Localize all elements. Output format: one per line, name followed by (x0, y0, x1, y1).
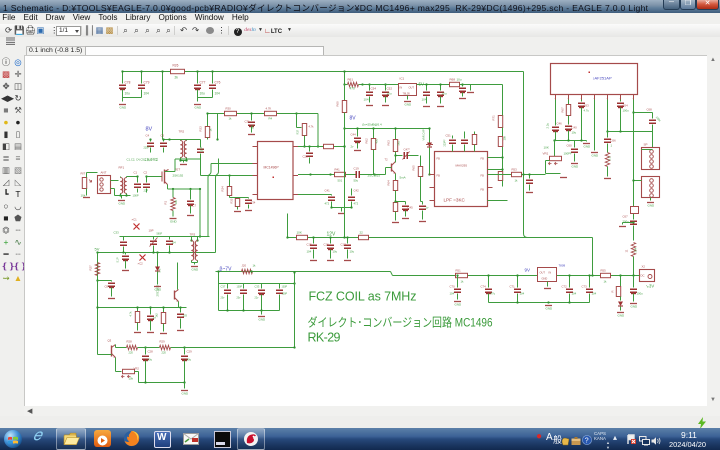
svg-text:R26: R26 (173, 64, 179, 68)
resistor R55 (601, 273, 611, 277)
transistor Q3 2SC1815 (111, 346, 113, 357)
svg-text:220: 220 (129, 351, 134, 355)
svg-text:10P: 10P (149, 229, 154, 233)
svg-text:472: 472 (325, 202, 330, 206)
ground bus under C41 C42 (332, 207, 352, 209)
svg-text:SP: SP (644, 143, 648, 147)
capacitor C53 above LPF (464, 132, 466, 139)
svg-text:C74: C74 (481, 285, 487, 289)
svg-text:C60: C60 (567, 144, 573, 148)
svg-text:R41: R41 (335, 168, 341, 172)
svg-text:100: 100 (174, 199, 178, 204)
capacitor C71 (517, 276, 519, 288)
svg-text:GND: GND (182, 392, 190, 396)
resistor R26 (171, 69, 185, 73)
svg-text:104: 104 (422, 98, 427, 102)
capacitor C74 (488, 276, 490, 288)
op-amp IC3 audio amplifier AF251AP (551, 64, 638, 95)
capacitor C70 (457, 276, 459, 288)
zener diode VD1 (156, 251, 158, 253)
wire L to R37 (296, 114, 298, 128)
svg-text:R63: R63 (387, 140, 391, 146)
svg-text:10k: 10k (503, 135, 507, 140)
svg-text:C17: C17 (341, 243, 347, 247)
svg-text:C72: C72 (562, 285, 568, 289)
resistor R22 (359, 235, 369, 239)
wire AF out (185, 347, 295, 349)
wire base (386, 167, 392, 169)
svg-text:104: 104 (215, 92, 221, 96)
svg-text:C45: C45 (408, 206, 414, 210)
svg-text:220: 220 (162, 351, 167, 355)
svg-text:GND: GND (405, 103, 413, 107)
svg-text:0.1P: 0.1P (117, 257, 120, 262)
svg-text:GND: GND (155, 288, 163, 292)
svg-text:C7: C7 (193, 204, 197, 208)
svg-text:R33: R33 (199, 126, 203, 132)
antenna connector X1 (98, 176, 111, 194)
capacitor C75 under R55 (620, 276, 622, 287)
svg-text:20v: 20v (221, 297, 226, 300)
varactor diode D2 1N60 (429, 129, 431, 143)
svg-text:104: 104 (364, 98, 369, 102)
svg-text:MAX295: MAX295 (456, 164, 468, 168)
wire LPF feedback taps (488, 157, 503, 159)
speaker connector SP1 (642, 148, 660, 170)
no-connect mark VC1 (134, 224, 140, 230)
svg-text:GND: GND (584, 145, 592, 149)
svg-text:C70: C70 (450, 285, 456, 289)
svg-text:ダイレクト･コンバージョン回路 MC1496: ダイレクト･コンバージョン回路 MC1496 (308, 315, 493, 330)
svg-text:GND: GND (192, 268, 200, 272)
wire mixer drop x97 (97, 253, 99, 355)
voltage regulator IC4 78L09 (538, 268, 557, 282)
svg-text:10u: 10u (457, 78, 462, 82)
resistor R61 470 (345, 84, 348, 86)
resistor R38 (324, 144, 334, 148)
resistor R70 above LPF (474, 132, 476, 135)
resistor R28 220 (127, 345, 138, 349)
svg-text:4.7K: 4.7K (266, 107, 272, 111)
svg-text:IC1: IC1 (400, 77, 405, 81)
wire emitter bus (139, 382, 185, 384)
svg-text:10u: 10u (350, 250, 355, 254)
svg-text:4,7k: 4,7k (309, 125, 315, 129)
capacitor C69 (633, 276, 635, 288)
svg-text:104: 104 (307, 250, 312, 254)
svg-text:J20: J20 (242, 264, 247, 268)
wire into MC1496 pin y175 (201, 175, 253, 177)
svg-text:22P: 22P (144, 189, 149, 193)
wire LO bias row (345, 128, 430, 130)
svg-text:C31: C31 (245, 120, 251, 124)
svg-text:C51: C51 (446, 134, 452, 138)
svg-text:C5: C5 (161, 134, 165, 138)
capacitor C51 (426, 85, 428, 91)
svg-text:βv=25dB@5.4: βv=25dB@5.4 (363, 123, 383, 127)
wire corner drop to pin row (317, 114, 319, 147)
ground under SP2 (650, 198, 652, 201)
svg-text:100P: 100P (237, 286, 243, 289)
svg-text:GND: GND (592, 154, 600, 158)
wire bottom supply rail (216, 271, 391, 273)
potentiometer VR2 10k (115, 361, 117, 372)
capacitor C46 (555, 100, 557, 126)
wire 12V rail (288, 237, 593, 239)
svg-text:↘3V: ↘3V (646, 284, 655, 289)
svg-text:R53: R53 (512, 168, 518, 172)
trimmer capacitor TC1 (153, 237, 155, 240)
svg-text:C64: C64 (623, 104, 629, 108)
svg-text:OUT: OUT (409, 86, 415, 90)
svg-text:10k: 10k (129, 377, 134, 381)
svg-text:4.7k: 4.7k (129, 311, 133, 317)
svg-text:47u: 47u (491, 292, 496, 296)
svg-text:50u: 50u (354, 179, 359, 183)
svg-text:LPF =3KC: LPF =3KC (444, 198, 466, 203)
svg-text:GND: GND (119, 202, 127, 206)
capacitor C42 (351, 189, 353, 196)
svg-text:10u: 10u (125, 92, 131, 96)
svg-text:GND: GND (170, 220, 178, 224)
resistor R33 (207, 114, 209, 127)
capacitor C77 (197, 72, 199, 84)
wire top bias row (208, 113, 297, 115)
transformer TR3 (191, 237, 193, 241)
wire output row (608, 131, 653, 133)
svg-text:?: ? (585, 438, 589, 445)
svg-text:100u: 100u (637, 292, 644, 296)
ground bus under AF amp (555, 140, 587, 142)
svg-text:VR1: VR1 (543, 152, 549, 156)
wire long vertical drop x523 (522, 173, 524, 175)
resistor R1 (172, 188, 174, 190)
resistor R35 (235, 199, 239, 207)
capacitor C73 (589, 276, 591, 288)
svg-text:78L05: 78L05 (403, 92, 411, 96)
svg-text:C63: C63 (584, 104, 590, 108)
svg-text:C29: C29 (187, 350, 193, 354)
resistor R27 inline (96, 251, 98, 253)
svg-text:103: 103 (183, 314, 188, 318)
transformer TR2 (180, 141, 182, 158)
svg-text:GND: GND (120, 106, 128, 110)
ground stub (470, 85, 472, 91)
no-connect mark VC2 (140, 255, 146, 261)
svg-text:4.7u: 4.7u (584, 109, 590, 113)
wire 5V feed to LPF (463, 84, 503, 86)
svg-text:472: 472 (354, 202, 359, 206)
ground of cluster (261, 311, 263, 315)
svg-text:104: 104 (172, 242, 177, 245)
svg-text:R55: R55 (601, 269, 607, 273)
svg-text:C33: C33 (114, 231, 120, 235)
ground under TR2 (180, 158, 182, 161)
svg-text:GND: GND (455, 303, 463, 307)
svg-text:FCZ COIL as 7MHz: FCZ COIL as 7MHz (309, 290, 417, 304)
svg-text:10u: 10u (387, 92, 392, 96)
svg-text:1k: 1k (253, 264, 257, 268)
voltage regulator IC1 78L05 (399, 84, 417, 96)
svg-text:FB: FB (481, 188, 485, 192)
wire C4 C5 row (163, 139, 191, 141)
svg-text:C76: C76 (215, 81, 221, 85)
capacitor C66 (607, 132, 609, 138)
svg-text:C19: C19 (354, 167, 360, 171)
svg-text:104: 104 (520, 292, 525, 296)
svg-text:×C1: ×C1 (132, 218, 138, 222)
svg-text:ANT: ANT (101, 171, 107, 175)
resistor R62 (373, 129, 375, 139)
connector X3 pad (631, 207, 639, 214)
svg-text:100P: 100P (201, 146, 204, 152)
svg-text:10u: 10u (572, 131, 577, 135)
capacitor C54 (369, 85, 371, 91)
svg-text:C4: C4 (146, 134, 150, 138)
svg-text:C16: C16 (324, 243, 330, 247)
svg-text:1k: 1k (515, 179, 519, 183)
resistor R30 (225, 111, 237, 115)
resistor R51 (456, 273, 468, 277)
svg-text:8V: 8V (146, 127, 153, 133)
resistor R32 (265, 111, 277, 115)
svg-text:5V: 5V (419, 82, 425, 87)
capacitor C30 (279, 284, 281, 289)
svg-text:FB: FB (437, 174, 441, 178)
svg-text:22: 22 (360, 231, 364, 235)
svg-text:Q3: Q3 (108, 339, 112, 343)
transistor Q4 2SC1815 (174, 291, 176, 300)
resistor R69 (393, 203, 397, 212)
svg-text:C54: C54 (371, 87, 377, 91)
resistor R23 4.7k (137, 308, 139, 312)
power jack X2 (640, 270, 655, 282)
svg-text:5V: 5V (95, 247, 100, 252)
wire FET source row (167, 185, 169, 190)
svg-text:C78: C78 (125, 81, 131, 85)
capacitor C41 (331, 195, 333, 196)
resistor R29 220 (138, 347, 160, 349)
capacitor C64 100u (620, 100, 622, 102)
svg-text:C34: C34 (251, 201, 256, 205)
capacitor C76 (212, 72, 214, 84)
svg-text:C15: C15 (307, 243, 313, 247)
svg-text:GND: GND (259, 318, 267, 322)
svg-text:10u: 10u (333, 250, 338, 254)
svg-text:VR2: VR2 (134, 367, 140, 371)
svg-text:R62: R62 (365, 138, 369, 144)
wire bias row to corner (297, 113, 319, 115)
svg-text:5mA: 5mA (400, 176, 406, 180)
svg-text:R35: R35 (230, 198, 234, 203)
svg-text:GND: GND (631, 305, 639, 309)
svg-text:11: 11 (625, 249, 629, 252)
svg-text:R65: R65 (412, 165, 416, 171)
svg-text:R67: R67 (561, 107, 565, 113)
svg-text:R: R (611, 290, 615, 292)
ground of preamp (184, 383, 186, 389)
svg-text:RIT: RIT (81, 172, 86, 176)
capacitor C52 (385, 85, 387, 91)
wire main 8V rail (123, 71, 524, 73)
trimmer capacitor C47 (396, 155, 403, 157)
svg-text:R30: R30 (226, 107, 232, 111)
svg-text:C47*: C47* (404, 148, 411, 152)
svg-text:5.6: 5.6 (158, 268, 162, 272)
svg-text:×C2: ×C2 (138, 262, 144, 266)
svg-text:RF1: RF1 (119, 166, 125, 170)
capacitor C36 (169, 237, 171, 240)
capacitor C33 (123, 237, 125, 241)
svg-text:560F: 560F (157, 233, 163, 236)
svg-text:FB: FB (437, 157, 441, 161)
resistor R52 304 (631, 243, 635, 257)
svg-text:C79: C79 (144, 81, 150, 85)
svg-text:T2: T2 (385, 158, 389, 162)
wire into MC1496 pin y163 (211, 163, 253, 165)
resistor R34 (228, 174, 230, 176)
svg-text:C41: C41 (325, 189, 331, 193)
svg-text:C42: C42 (354, 189, 360, 193)
capacitor C78 (122, 72, 124, 84)
svg-text:C67: C67 (623, 215, 629, 219)
capacitor C15 (313, 238, 315, 244)
wire pin7 drop (633, 100, 635, 219)
svg-text:FB: FB (481, 157, 485, 161)
svg-text:C46: C46 (557, 122, 563, 126)
wire preamp top bus (98, 307, 187, 309)
resistor R73 lower (498, 172, 502, 181)
svg-text:5k6: 5k6 (397, 141, 401, 146)
capacitor C67 (633, 219, 635, 220)
capacitor C39 (261, 284, 263, 289)
capacitor C20 1u (150, 308, 152, 315)
svg-text:1v: 1v (426, 206, 430, 210)
capacitor C29 20u (184, 348, 186, 355)
potentiometer VR1 10K (553, 139, 555, 141)
wire riser v1 with jog (208, 164, 211, 237)
svg-text:501: 501 (338, 179, 343, 183)
ground stub left of C67 (623, 222, 634, 224)
resistor R20 1k (242, 269, 253, 273)
svg-text:1k: 1k (229, 117, 233, 121)
svg-text:TR3: TR3 (190, 233, 196, 237)
ground of IC4 (547, 282, 549, 287)
svg-text:IN: IN (549, 271, 552, 275)
capacitor C79 (141, 72, 143, 84)
resistor R21 10K (297, 235, 308, 239)
svg-text:R61: R61 (348, 78, 354, 82)
wire MC1496 pin right top (298, 146, 345, 148)
wire drop to mixer input row (162, 72, 164, 140)
svg-text:1k: 1k (461, 280, 465, 284)
capacitor C50 (440, 85, 442, 91)
wire drop from rail to 5V row (344, 72, 346, 85)
capacitor C34 (248, 198, 250, 199)
svg-text:20v: 20v (237, 297, 242, 300)
svg-text:RK-29: RK-29 (308, 331, 341, 345)
svg-text:2k: 2k (175, 76, 179, 80)
capacitor C21 (180, 308, 182, 313)
svg-text:220PF: 220PF (444, 139, 447, 147)
wire MC1496 pin right bottom (298, 194, 326, 196)
capacitor C58 (529, 175, 531, 179)
wire clock column 5V to LPF (498, 116, 502, 128)
svg-text:8V: 8V (350, 116, 357, 122)
resistor R63 (395, 129, 397, 140)
svg-text:103P: 103P (282, 286, 288, 289)
capacitor C19 coupling (346, 174, 356, 176)
svg-text:10u: 10u (200, 92, 206, 96)
resistor R24 1k2 (163, 308, 165, 313)
svg-text:C52: C52 (387, 87, 393, 91)
svg-text:C44: C44 (351, 133, 357, 137)
svg-text:GND: GND (195, 106, 203, 110)
svg-text:104: 104 (450, 292, 455, 296)
capacitor C63 4.7u (581, 100, 583, 102)
wire antenna to TR1 (111, 180, 119, 182)
svg-text:C2: C2 (144, 171, 148, 175)
svg-text:100P: 100P (282, 293, 288, 296)
wire collector to R28 (115, 347, 117, 349)
svg-text:20u: 20u (187, 358, 192, 362)
svg-text:GND: GND (546, 307, 554, 311)
svg-text:104: 104 (572, 292, 577, 296)
wire preamp column (98, 354, 108, 356)
capacitor C4 (150, 140, 152, 142)
wire riser v2 with jog (216, 159, 219, 253)
capacitor C51b above LPF (452, 136, 454, 139)
svg-text:10K: 10K (297, 231, 302, 235)
svg-text:C25: C25 (303, 155, 309, 159)
svg-text:2v: 2v (351, 145, 355, 149)
diode D1 LED (618, 302, 623, 307)
wire tank top bus (120, 236, 210, 238)
wire signal to volume pot (488, 174, 512, 176)
svg-text:C33: C33 (255, 285, 260, 289)
svg-text:C71: C71 (510, 285, 516, 289)
wire source riser to tank (199, 189, 201, 237)
resistor R53 10k (512, 172, 522, 176)
svg-text:R1: R1 (164, 200, 168, 204)
svg-text:VAR.CAP: VAR.CAP (422, 129, 426, 140)
svg-text:OUT: OUT (540, 271, 546, 275)
svg-text:2.2u: 2.2u (546, 123, 550, 129)
capacitor C6 (191, 139, 201, 141)
transistor Q2 2SC1815 (391, 164, 393, 172)
resistor R41 (335, 172, 346, 176)
resistor R66 3.3 (605, 153, 609, 167)
capacitor C48 (420, 187, 422, 202)
capacitor C38 (243, 284, 245, 289)
transistor Q1 FET 2SK192 (161, 172, 163, 182)
capacitor C40 (565, 126, 572, 128)
op-amp IC2 MC1496P (258, 142, 294, 200)
wire TR3 secondary down (177, 263, 179, 290)
svg-text:R4: R4 (269, 117, 273, 121)
resistor R68 (450, 82, 460, 86)
svg-text:1: 1 (611, 144, 613, 148)
wire FET drain (165, 171, 176, 173)
capacitor C17 (347, 238, 349, 244)
resistor R65 (420, 156, 422, 167)
svg-text:β~7V: β~7V (220, 267, 233, 273)
svg-text:R29: R29 (160, 340, 166, 344)
capacitor C28 20u (145, 348, 147, 355)
svg-text:R28: R28 (127, 340, 133, 344)
svg-text:104: 104 (144, 92, 150, 96)
svg-text:1k2: 1k2 (155, 313, 159, 318)
